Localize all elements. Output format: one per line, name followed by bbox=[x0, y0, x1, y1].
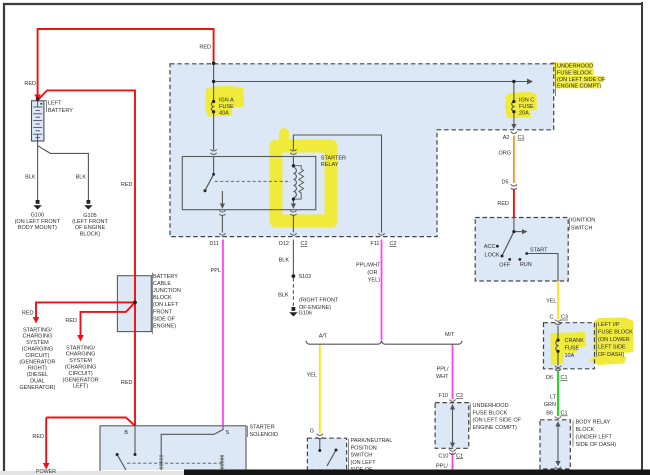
svg-text:STARTING/: STARTING/ bbox=[23, 327, 52, 333]
svg-text:(OR: (OR bbox=[367, 270, 377, 276]
svg-text:D12: D12 bbox=[279, 241, 289, 247]
svg-text:(GENERATOR: (GENERATOR bbox=[63, 377, 99, 383]
svg-text:SWITCH: SWITCH bbox=[351, 453, 373, 459]
svg-text:(CHARGING: (CHARGING bbox=[22, 347, 53, 353]
svg-text:S: S bbox=[226, 430, 230, 436]
svg-text:SIDE OF DASH): SIDE OF DASH) bbox=[576, 442, 617, 448]
svg-text:STARTER: STARTER bbox=[250, 425, 275, 431]
svg-text:GRN: GRN bbox=[544, 402, 556, 408]
svg-text:G106: G106 bbox=[299, 311, 312, 317]
svg-text:BLOCK: BLOCK bbox=[576, 427, 595, 433]
svg-text:F11: F11 bbox=[370, 241, 379, 247]
svg-text:CHARGING: CHARGING bbox=[23, 334, 53, 340]
svg-text:FUSE BLOCK: FUSE BLOCK bbox=[598, 330, 633, 336]
svg-text:DUAL: DUAL bbox=[30, 379, 45, 385]
svg-text:STARTING/: STARTING/ bbox=[66, 345, 95, 351]
svg-text:BLOCK): BLOCK) bbox=[80, 231, 101, 237]
svg-text:FUSE BLOCK: FUSE BLOCK bbox=[473, 410, 508, 416]
svg-text:(LEFT FRONT: (LEFT FRONT bbox=[72, 219, 108, 225]
svg-text:STARTER: STARTER bbox=[321, 156, 346, 162]
svg-text:RELAY: RELAY bbox=[321, 162, 339, 168]
svg-text:SYSTEM: SYSTEM bbox=[26, 340, 49, 346]
svg-text:YEL: YEL bbox=[546, 298, 556, 304]
svg-text:FUSE: FUSE bbox=[565, 346, 580, 352]
svg-text:PPL/: PPL/ bbox=[436, 464, 448, 470]
svg-text:G: G bbox=[310, 429, 314, 435]
svg-text:RUN: RUN bbox=[520, 262, 532, 268]
svg-text:FUSE BLOCK: FUSE BLOCK bbox=[557, 71, 592, 77]
svg-text:B6: B6 bbox=[546, 411, 553, 417]
svg-text:(DIESEL: (DIESEL bbox=[27, 372, 48, 378]
svg-text:G105: G105 bbox=[83, 213, 96, 219]
svg-text:RED: RED bbox=[121, 182, 133, 188]
svg-text:(UNDER LEFT: (UNDER LEFT bbox=[576, 434, 613, 440]
svg-text:CABLE: CABLE bbox=[153, 281, 171, 287]
svg-text:GENERATOR): GENERATOR) bbox=[19, 385, 55, 391]
svg-text:ENGINE): ENGINE) bbox=[153, 324, 176, 330]
svg-text:BLK: BLK bbox=[25, 175, 36, 181]
svg-text:OF DASH): OF DASH) bbox=[598, 352, 624, 358]
svg-text:SIDE OF: SIDE OF bbox=[153, 316, 176, 322]
svg-text:ORG: ORG bbox=[498, 151, 511, 157]
svg-text:S102: S102 bbox=[299, 274, 312, 280]
svg-text:SYSTEM: SYSTEM bbox=[69, 358, 92, 364]
svg-text:WHT: WHT bbox=[436, 374, 449, 380]
svg-text:PARK/NEUTRAL: PARK/NEUTRAL bbox=[351, 438, 393, 444]
svg-text:CRANK: CRANK bbox=[565, 338, 585, 344]
svg-text:(RIGHT FRONT: (RIGHT FRONT bbox=[299, 298, 339, 304]
svg-text:BLOCK: BLOCK bbox=[153, 295, 172, 301]
svg-text:LEFT I/P: LEFT I/P bbox=[598, 322, 620, 328]
svg-text:BATTERY: BATTERY bbox=[153, 274, 178, 280]
svg-text:LEFT): LEFT) bbox=[73, 384, 88, 390]
svg-text:FRONT: FRONT bbox=[153, 309, 173, 315]
svg-text:A/T: A/T bbox=[319, 334, 328, 340]
svg-text:ENGINE COMPT): ENGINE COMPT) bbox=[557, 84, 601, 90]
svg-text:IGNITION: IGNITION bbox=[571, 218, 595, 224]
svg-text:(CHARGING: (CHARGING bbox=[65, 365, 96, 371]
svg-text:RIGHT): RIGHT) bbox=[28, 366, 47, 372]
svg-text:LEFT: LEFT bbox=[48, 101, 62, 107]
svg-text:YEL: YEL bbox=[307, 372, 317, 378]
svg-text:M/T: M/T bbox=[445, 332, 455, 338]
svg-text:POSITION: POSITION bbox=[351, 445, 377, 451]
svg-text:D6: D6 bbox=[546, 375, 553, 381]
svg-text:BLK: BLK bbox=[279, 258, 290, 264]
svg-text:BODY RELAY: BODY RELAY bbox=[576, 419, 611, 425]
svg-text:RED: RED bbox=[24, 81, 36, 87]
svg-text:FUSE: FUSE bbox=[219, 104, 234, 110]
svg-text:OFF: OFF bbox=[499, 262, 511, 268]
svg-text:LT: LT bbox=[550, 395, 557, 401]
svg-text:ACC: ACC bbox=[484, 244, 496, 250]
svg-text:(ON LEFT: (ON LEFT bbox=[351, 460, 377, 466]
svg-text:(ON LEFT SIDE OF: (ON LEFT SIDE OF bbox=[473, 418, 522, 424]
svg-text:PPL/WHT: PPL/WHT bbox=[356, 263, 381, 269]
svg-text:20A: 20A bbox=[519, 111, 529, 117]
svg-text:D5: D5 bbox=[501, 180, 508, 186]
svg-text:BLK: BLK bbox=[278, 293, 289, 299]
svg-text:UNDERHOOD: UNDERHOOD bbox=[473, 403, 509, 409]
svg-text:OF ENGINE: OF ENGINE bbox=[75, 225, 106, 231]
svg-text:RED: RED bbox=[22, 310, 34, 316]
svg-text:PPL: PPL bbox=[211, 268, 221, 274]
svg-text:SOLENOID: SOLENOID bbox=[250, 432, 278, 438]
svg-text:(GENERATOR: (GENERATOR bbox=[19, 359, 55, 365]
svg-text:RED: RED bbox=[65, 318, 77, 324]
svg-text:START: START bbox=[530, 248, 548, 254]
svg-text:B: B bbox=[124, 430, 128, 436]
svg-text:CHARGING: CHARGING bbox=[66, 352, 96, 358]
svg-text:F10: F10 bbox=[439, 393, 448, 399]
svg-text:G100: G100 bbox=[31, 213, 44, 219]
svg-text:C: C bbox=[550, 315, 554, 321]
svg-text:CIRCUIT): CIRCUIT) bbox=[25, 353, 49, 359]
svg-text:C10: C10 bbox=[438, 453, 448, 459]
svg-text:LOCK: LOCK bbox=[485, 253, 500, 259]
svg-text:(ON LEFT FRONT: (ON LEFT FRONT bbox=[15, 219, 61, 225]
svg-text:LEFT SIDE: LEFT SIDE bbox=[598, 345, 626, 351]
svg-text:RED: RED bbox=[32, 434, 44, 440]
svg-text:RED: RED bbox=[199, 45, 211, 51]
svg-text:A2: A2 bbox=[503, 135, 510, 141]
svg-text:BODY MOUNT): BODY MOUNT) bbox=[18, 225, 57, 231]
svg-text:PPL/: PPL/ bbox=[437, 367, 449, 373]
svg-text:(ON LOWER: (ON LOWER bbox=[598, 337, 630, 343]
svg-text:RED: RED bbox=[121, 380, 133, 386]
svg-text:ENGINE COMPT): ENGINE COMPT) bbox=[473, 425, 517, 431]
svg-text:SWITCH: SWITCH bbox=[571, 225, 593, 231]
svg-text:JUNCTION: JUNCTION bbox=[153, 288, 181, 294]
svg-text:IGN A: IGN A bbox=[219, 98, 234, 104]
svg-text:BLK: BLK bbox=[76, 175, 87, 181]
svg-text:IGN C: IGN C bbox=[519, 98, 534, 104]
svg-text:POWER: POWER bbox=[36, 469, 56, 475]
svg-text:(ON LEFT: (ON LEFT bbox=[153, 302, 179, 308]
svg-text:CIRCUIT): CIRCUIT) bbox=[69, 371, 93, 377]
svg-text:(ON LEFT SIDE OF: (ON LEFT SIDE OF bbox=[557, 77, 606, 83]
svg-text:10A: 10A bbox=[565, 353, 575, 359]
svg-text:RED: RED bbox=[497, 201, 509, 207]
svg-text:FUSE: FUSE bbox=[519, 104, 534, 110]
svg-text:UNDERHOOD: UNDERHOOD bbox=[557, 63, 593, 69]
svg-text:40A: 40A bbox=[219, 111, 229, 117]
svg-text:D11: D11 bbox=[209, 241, 219, 247]
svg-text:BATTERY: BATTERY bbox=[48, 108, 73, 114]
svg-text:YEL): YEL) bbox=[368, 278, 380, 284]
